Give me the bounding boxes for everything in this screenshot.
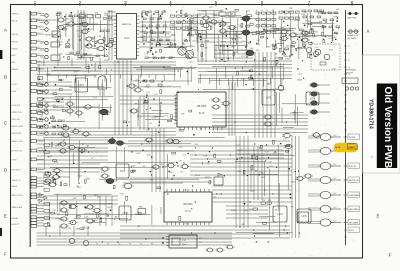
svg-text:RA21: RA21	[213, 14, 218, 17]
svg-text:IC77: IC77	[164, 116, 168, 118]
shaded gate column U19	[309, 83, 330, 114]
svg-text:L43: L43	[336, 9, 339, 11]
svg-text:R57: R57	[53, 210, 56, 212]
discrete component field around IC14	[142, 10, 198, 59]
svg-text:D19: D19	[178, 23, 181, 25]
svg-text:Q31: Q31	[146, 92, 150, 94]
center gates U15	[126, 84, 143, 113]
svg-text:B: B	[4, 75, 7, 80]
svg-text:F: F	[4, 252, 7, 257]
svg-text:VR13: VR13	[176, 68, 181, 70]
svg-text:D75: D75	[189, 61, 192, 63]
gate cluster U4	[80, 22, 114, 50]
svg-text:VR24: VR24	[231, 210, 236, 212]
wire bus row C	[37, 115, 309, 135]
svg-text:VR12: VR12	[77, 176, 82, 178]
svg-text:M-FG: M-FG	[349, 230, 354, 232]
svg-text:Q25: Q25	[298, 74, 302, 76]
svg-text:L67: L67	[198, 15, 201, 17]
svg-text:E: E	[4, 214, 7, 219]
svg-text:IC 42: IC 42	[199, 113, 205, 115]
transistor Q9	[278, 85, 284, 91]
IC U26 LS76	[273, 206, 287, 222]
svg-text:D70: D70	[67, 228, 70, 230]
svg-text:SPEED 4: SPEED 4	[12, 14, 20, 16]
box B2	[298, 212, 309, 222]
indicator pair D3 D4	[347, 30, 359, 40]
svg-text:RA8: RA8	[256, 43, 260, 46]
row D-E wires right	[120, 140, 295, 238]
svg-text:Q3: Q3	[45, 82, 48, 84]
svg-text:C39: C39	[181, 113, 184, 115]
svg-text:J1-2: J1-2	[37, 40, 40, 42]
svg-text:D95: D95	[284, 49, 287, 51]
svg-text:RA88: RA88	[90, 36, 95, 39]
svg-text:J4: J4	[348, 46, 350, 48]
svg-text:J1-2: J1-2	[37, 54, 40, 56]
svg-text:VR76: VR76	[104, 60, 109, 62]
svg-text:MB 4050: MB 4050	[197, 106, 207, 108]
svg-text:VR18: VR18	[107, 207, 112, 209]
svg-text:J4: J4	[348, 67, 350, 69]
svg-text:Q85: Q85	[333, 37, 337, 39]
svg-text:IC53: IC53	[120, 193, 124, 195]
svg-text:LOW SPD: LOW SPD	[12, 105, 21, 107]
svg-text:R52: R52	[66, 19, 69, 21]
svg-text:IC71: IC71	[101, 172, 105, 174]
svg-text:D8: D8	[242, 224, 244, 226]
svg-text:VR23: VR23	[205, 177, 210, 179]
IC IC41 MB4050	[164, 189, 212, 225]
misc parts center	[135, 80, 176, 127]
svg-text:C9: C9	[183, 155, 185, 157]
net label READY (highlighted)	[334, 143, 359, 152]
vertical bundle right of IC42	[229, 82, 235, 136]
svg-text:Q40: Q40	[131, 166, 135, 168]
svg-text:D57: D57	[333, 33, 336, 35]
IC U22 LS74	[116, 164, 129, 178]
svg-text:Q56: Q56	[332, 69, 336, 71]
IC IC14 MB87016	[114, 14, 139, 60]
row E discrete field	[50, 193, 161, 230]
svg-text:WR GATE: WR GATE	[12, 168, 21, 171]
mid sparse wires	[39, 63, 285, 90]
svg-text:Q94: Q94	[74, 72, 78, 74]
wire web around col5 row B	[214, 44, 253, 62]
svg-text:D67: D67	[237, 145, 240, 147]
capacitor bank C-left	[40, 14, 48, 135]
svg-text:L12: L12	[315, 47, 318, 49]
svg-text:P5: P5	[140, 244, 142, 246]
svg-text:R20: R20	[293, 33, 296, 35]
gates near driver column	[282, 133, 321, 149]
vertical bundle col2 top	[78, 10, 112, 60]
transistor Q5	[178, 47, 186, 55]
svg-text:STEP: STEP	[12, 159, 18, 161]
svg-text:IC67: IC67	[312, 31, 316, 33]
svg-text:SPEED SENSE: SPEED SENSE	[45, 34, 59, 36]
svg-text:RA85: RA85	[55, 144, 60, 147]
component cluster col8 top	[322, 12, 340, 31]
note EXTERNAL MOTOR	[346, 69, 356, 75]
svg-text:DIRECTION: DIRECTION	[12, 112, 23, 114]
svg-text:J4: J4	[348, 60, 350, 62]
svg-text:L75: L75	[149, 123, 152, 125]
gates U21 center	[211, 98, 230, 109]
svg-text:R14: R14	[150, 179, 153, 181]
svg-text:C26: C26	[183, 40, 186, 42]
svg-text:R55: R55	[256, 50, 259, 52]
svg-text:RA70: RA70	[78, 57, 83, 60]
svg-text:D83: D83	[58, 27, 61, 29]
svg-text:J4-2: J4-2	[333, 193, 336, 195]
svg-text:VR44: VR44	[93, 220, 98, 222]
svg-text:VR94: VR94	[285, 58, 290, 60]
svg-text:RA50: RA50	[303, 30, 308, 33]
trimmer VR1	[69, 238, 74, 243]
svg-text:L50: L50	[262, 60, 265, 62]
svg-text:L87: L87	[209, 7, 212, 9]
svg-text:R18: R18	[319, 21, 322, 23]
svg-text:IC37: IC37	[167, 86, 171, 88]
svg-text:D29: D29	[269, 166, 272, 168]
svg-text:VR70: VR70	[303, 38, 308, 40]
row D right extra wires	[226, 146, 284, 218]
col6-7 row C discrete	[237, 60, 309, 128]
svg-text:C47: C47	[76, 186, 79, 188]
svg-text:C2: C2	[89, 43, 91, 45]
sticker: Old Version PWB label	[363, 55, 400, 173]
wire bus row B right	[198, 61, 292, 79]
svg-text:C87: C87	[179, 160, 182, 162]
svg-text:IC46: IC46	[168, 172, 172, 174]
svg-text:C38: C38	[281, 51, 284, 53]
svg-text:J4-2: J4-2	[333, 221, 336, 223]
svg-text:RA30: RA30	[141, 30, 146, 33]
svg-text:MOTOR ON: MOTOR ON	[349, 180, 360, 182]
svg-text:D37: D37	[142, 166, 145, 168]
vertical bus center	[115, 60, 164, 192]
transistor Q6	[185, 50, 193, 58]
svg-text:VR18: VR18	[135, 214, 140, 216]
svg-text:R94: R94	[250, 190, 253, 192]
svg-text:VR79: VR79	[160, 87, 165, 89]
svg-text:J4: J4	[348, 74, 350, 76]
svg-text:WRITE GATE: WRITE GATE	[12, 125, 24, 128]
svg-text:LS76: LS76	[310, 99, 316, 101]
svg-text:READ DATA: READ DATA	[12, 206, 23, 209]
mid-left discrete field	[38, 79, 114, 129]
svg-text:LS74: LS74	[120, 171, 126, 173]
svg-text:REW A: REW A	[12, 47, 19, 50]
gate U28	[295, 174, 312, 181]
svg-text:R88: R88	[185, 26, 188, 28]
svg-text:PLAY: PLAY	[12, 90, 17, 93]
svg-text:C6: C6	[52, 117, 54, 119]
svg-text:INDEX: INDEX	[12, 186, 19, 188]
svg-text:L37: L37	[50, 178, 53, 180]
wire field row D	[37, 136, 293, 186]
svg-text:LS76: LS76	[266, 98, 272, 100]
svg-text:J1-2: J1-2	[37, 12, 40, 14]
svg-text:D26: D26	[91, 15, 94, 17]
vertical bus col6	[255, 52, 275, 138]
bottom gates cluster	[206, 245, 235, 252]
svg-text:IC91: IC91	[259, 172, 263, 174]
svg-text:L96: L96	[104, 15, 107, 17]
gate cluster E1	[59, 201, 77, 228]
connector J1	[30, 11, 44, 247]
svg-text:C71: C71	[199, 238, 202, 240]
svg-text:IC38: IC38	[190, 36, 194, 38]
svg-text:R45: R45	[166, 34, 169, 36]
component row R58	[279, 11, 299, 41]
svg-text:L87: L87	[317, 10, 320, 12]
svg-text:REC A: REC A	[12, 19, 18, 22]
svg-text:IC78: IC78	[54, 162, 58, 164]
wire bus row B left	[37, 58, 177, 75]
svg-text:Q22: Q22	[41, 91, 45, 93]
svg-text:Q61: Q61	[286, 46, 290, 48]
svg-text:Q77: Q77	[150, 62, 154, 64]
gate pair U18	[263, 115, 272, 126]
diodes D row	[39, 193, 47, 203]
caps at X1	[162, 237, 202, 244]
terminal block TB1	[342, 78, 359, 90]
svg-text:J4-25: J4-25	[335, 147, 341, 149]
speed sense network RA2	[45, 31, 60, 60]
wire field top-mid	[108, 11, 242, 63]
resistor field R50	[256, 10, 276, 33]
IC U17 LS76	[306, 92, 319, 105]
svg-text:IC80: IC80	[185, 223, 189, 225]
svg-text:R92: R92	[59, 44, 62, 46]
svg-text:IN USE: IN USE	[349, 137, 356, 139]
svg-text:LOW SPEED: LOW SPEED	[349, 195, 360, 197]
svg-text:VR99: VR99	[274, 89, 279, 91]
svg-text:VR72: VR72	[238, 34, 243, 36]
svg-text:RA58: RA58	[297, 78, 302, 81]
svg-text:RA9: RA9	[139, 206, 143, 209]
bottom-left tiny text row	[96, 244, 153, 246]
svg-text:RA13: RA13	[328, 35, 333, 38]
svg-text:L96: L96	[145, 53, 148, 55]
svg-text:D34: D34	[194, 144, 197, 146]
svg-text:RA3: RA3	[273, 48, 277, 51]
svg-text:READY: READY	[349, 146, 356, 149]
gate U20 shaded	[245, 32, 264, 56]
svg-text:MOTOR ON: MOTOR ON	[12, 150, 23, 152]
svg-text:RA99: RA99	[46, 73, 51, 76]
connector J1 signal labels	[12, 12, 41, 226]
svg-text:C: C	[4, 121, 7, 126]
svg-text:J1-2: J1-2	[37, 32, 40, 34]
svg-text:C4: C4	[284, 13, 286, 15]
svg-text:LS76: LS76	[301, 216, 307, 218]
right net labels	[348, 134, 360, 232]
trimmer VR2	[83, 240, 88, 245]
svg-text:VR63: VR63	[221, 41, 226, 43]
svg-text:LINE PLAY: LINE PLAY	[347, 17, 357, 20]
svg-text:C19: C19	[268, 161, 271, 163]
XOR U24	[123, 183, 134, 188]
svg-text:P1: P1	[96, 244, 98, 246]
svg-text:HEAD LOAD: HEAD LOAD	[12, 140, 24, 143]
shaded XOR U23	[105, 178, 116, 183]
mid band extra wires	[37, 82, 177, 130]
svg-text:L22: L22	[47, 157, 50, 159]
top extra stub wires	[58, 10, 298, 58]
svg-text:IC14: IC14	[124, 38, 130, 40]
svg-text:VR98: VR98	[204, 41, 209, 43]
svg-text:L53: L53	[38, 118, 41, 120]
svg-text:D: D	[4, 168, 7, 173]
svg-text:IC97: IC97	[193, 18, 197, 20]
svg-text:MB87016: MB87016	[122, 24, 132, 26]
svg-text:✓: ✓	[371, 154, 374, 159]
svg-text:D72: D72	[305, 21, 308, 23]
svg-text:D77: D77	[93, 98, 96, 100]
component cluster top col7	[300, 10, 323, 57]
svg-text:IC33: IC33	[230, 38, 234, 40]
svg-text:PULL IN: PULL IN	[349, 166, 356, 168]
left column parts row D/E	[45, 143, 60, 227]
svg-text:WRITE PROT: WRITE PROT	[12, 195, 25, 197]
junction dots extra	[131, 154, 299, 230]
svg-text:Old Version PWB: Old Version PWB	[382, 87, 393, 169]
row D/E scatter extra	[38, 60, 295, 231]
gate cluster U12	[65, 102, 98, 115]
svg-text:C7: C7	[239, 227, 241, 229]
svg-text:RA96: RA96	[284, 55, 289, 58]
svg-text:Q68: Q68	[204, 48, 208, 50]
svg-text:R/W: R/W	[12, 62, 16, 64]
svg-text:J4-2: J4-2	[333, 207, 336, 209]
svg-text:L73: L73	[284, 139, 287, 141]
svg-text:ERASE: ERASE	[12, 68, 19, 71]
svg-text:D26: D26	[329, 50, 332, 52]
svg-text:J4-2: J4-2	[333, 178, 336, 180]
svg-text:R87: R87	[315, 36, 318, 38]
svg-text:C72: C72	[199, 242, 202, 244]
svg-text:PHASE LOCK: PHASE LOCK	[347, 34, 359, 37]
oscillator module X1	[166, 235, 197, 248]
shaded gates D2	[107, 139, 125, 146]
svg-text:D13: D13	[258, 74, 261, 76]
svg-text:C47: C47	[45, 172, 48, 174]
indicator LED pair D1 D2	[347, 12, 359, 20]
bottom wire bus	[37, 226, 233, 245]
svg-text:C11: C11	[180, 171, 183, 173]
svg-text:IC95: IC95	[203, 155, 207, 157]
gates E2	[84, 205, 102, 223]
vertical bus col 6-7	[236, 136, 299, 238]
svg-text:L82: L82	[291, 45, 294, 47]
gate cluster U7	[201, 10, 219, 28]
svg-text:D90: D90	[152, 17, 155, 19]
svg-text:A: A	[367, 29, 370, 34]
svg-text:HIGH RATE: HIGH RATE	[349, 208, 359, 211]
svg-text:R85: R85	[201, 58, 204, 60]
svg-text:IC89: IC89	[88, 29, 92, 31]
top-left discrete field	[56, 12, 113, 61]
resistor array RA1 column	[38, 77, 50, 226]
resistor grid R30-R44	[171, 15, 198, 29]
svg-text:Q36: Q36	[147, 155, 151, 157]
svg-text:Q39: Q39	[61, 120, 65, 122]
svg-text:J4-2: J4-2	[333, 164, 336, 166]
svg-text:TRACK 00: TRACK 00	[12, 179, 21, 182]
gate cluster U2 top-left	[37, 12, 101, 30]
svg-text:DRIVE SEL: DRIVE SEL	[12, 133, 22, 135]
svg-text:VR52: VR52	[291, 181, 296, 183]
svg-text:R12: R12	[95, 13, 98, 15]
svg-text:C1: C1	[146, 130, 148, 132]
svg-text:R91: R91	[262, 200, 265, 202]
dashed module M1	[311, 44, 340, 70]
IC U10 LS74	[75, 78, 88, 92]
svg-text:FWD A: FWD A	[12, 41, 19, 44]
svg-text:IC28: IC28	[265, 152, 269, 154]
gate cluster D3	[100, 138, 180, 178]
svg-text:L97: L97	[290, 28, 293, 30]
svg-text:D88: D88	[61, 132, 64, 134]
svg-text:L10: L10	[193, 24, 196, 26]
svg-text:J4-2: J4-2	[333, 135, 336, 137]
XOR U13 shaded	[98, 109, 110, 115]
svg-text:VR12: VR12	[135, 80, 140, 82]
gate U11 tall	[98, 76, 106, 96]
gate cluster D1 left	[43, 142, 95, 183]
svg-text:Q68: Q68	[242, 41, 246, 43]
svg-text:R18: R18	[334, 16, 337, 18]
svg-text:P2: P2	[107, 244, 109, 246]
svg-text:J4: J4	[348, 53, 350, 55]
svg-text:P4: P4	[129, 244, 131, 246]
svg-text:IC76: IC76	[328, 38, 332, 40]
connector J4 line	[344, 10, 350, 245]
svg-text:L98: L98	[76, 31, 79, 33]
svg-text:IC17: IC17	[234, 36, 238, 38]
svg-text:C47: C47	[184, 48, 187, 50]
junction dots on buses	[49, 61, 300, 242]
svg-text:RADIAL: RADIAL	[12, 217, 19, 220]
svg-text:IC23: IC23	[84, 228, 88, 230]
svg-text:J1-2: J1-2	[37, 25, 40, 27]
svg-text:SIDE SEL: SIDE SEL	[12, 119, 21, 121]
svg-text:A: A	[4, 28, 7, 33]
svg-text:VR32: VR32	[145, 86, 150, 88]
discrete field col4-5 gap	[183, 15, 207, 48]
svg-text:L68: L68	[303, 44, 306, 46]
parts above U26	[253, 200, 271, 210]
svg-text:Q82: Q82	[56, 40, 60, 42]
row E extra wires	[37, 196, 119, 226]
svg-text:VR3: VR3	[267, 46, 271, 48]
IC IC42 MB4050	[174, 92, 226, 130]
svg-text:VR23: VR23	[68, 16, 73, 18]
svg-text:VR58: VR58	[53, 107, 58, 109]
svg-text:IC7: IC7	[133, 85, 136, 87]
svg-text:RA55: RA55	[247, 41, 252, 44]
box with flag F1	[214, 173, 223, 185]
resistor pack RA9	[138, 206, 146, 215]
svg-text:F: F	[389, 252, 392, 257]
svg-text:Q49: Q49	[192, 41, 196, 43]
svg-text:VR74: VR74	[46, 180, 51, 182]
wire bus stubs row B	[39, 75, 282, 88]
discrete parts top-left	[69, 15, 111, 57]
